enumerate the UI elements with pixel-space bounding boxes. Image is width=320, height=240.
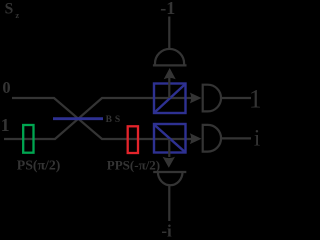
phase shifter PPS(-pi/2) red box xyxy=(128,126,138,153)
svg-text:1: 1 xyxy=(249,85,260,114)
svg-text:1: 1 xyxy=(1,115,10,135)
svg-text:BS: BS xyxy=(106,115,124,125)
detector D1 (right upper, dome right) xyxy=(203,85,221,112)
svg-text:i: i xyxy=(254,126,260,151)
svg-text:PS(π/2): PS(π/2) xyxy=(17,157,61,173)
svg-text:-i: -i xyxy=(161,221,172,237)
svg-text:PPS(-π/2): PPS(-π/2) xyxy=(107,157,160,172)
beam splitter cube U1 (upper, blue) xyxy=(154,84,186,114)
wire: detector D1 to label 1 xyxy=(222,97,251,99)
arrow right into detector D2 xyxy=(190,133,202,144)
svg-text:-1: -1 xyxy=(160,0,175,18)
detector D2 (right lower, dome right) xyxy=(203,125,221,152)
svg-text:z: z xyxy=(15,10,19,20)
wire: detector D2 to label i xyxy=(222,137,251,139)
arrow right into detector D1 xyxy=(190,93,202,104)
wire: input 1 -> crossing -> upper rail into cube U1 xyxy=(4,98,194,139)
beam splitter BS (blue bar at crossing) xyxy=(53,117,103,120)
detector D-1 (top, dome up) xyxy=(153,49,187,65)
label S_z (operator name, top-left) xyxy=(5,0,20,20)
detector D-i (bottom, dome down) xyxy=(153,172,186,185)
arrow up into top detector xyxy=(164,68,176,79)
wire: up from cube U1 to top arrow xyxy=(168,78,170,98)
wire: bottom detector to -i label xyxy=(168,186,170,221)
svg-text:S: S xyxy=(5,0,14,17)
wire: down from cube U2 to bottom arrow xyxy=(168,139,170,157)
wire: input 0 -> crossing -> lower rail into cube U2 xyxy=(12,98,194,139)
arrow down into bottom detector xyxy=(163,157,175,168)
phase shifter PS(pi/2) green box xyxy=(23,125,33,153)
wire: top detector to -1 label xyxy=(168,17,170,49)
svg-text:0: 0 xyxy=(2,78,10,97)
beam splitter cube U2 (lower, blue) xyxy=(154,124,186,153)
